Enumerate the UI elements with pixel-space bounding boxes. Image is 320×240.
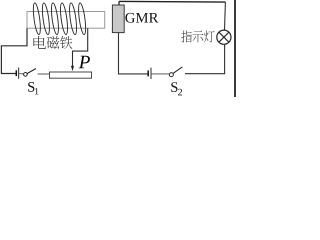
label P (slider) — [79, 56, 90, 68]
battery cell B2 positive long plate — [150, 68, 152, 79]
battery cell B1 negative short plate — [15, 70, 17, 76]
label "指示灯" (indicator lamp) char 2 — [193, 31, 204, 43]
electromagnet coil winding (6 turns) — [32, 3, 87, 35]
electromagnet core (iron core rectangle) — [27, 12, 105, 29]
wire: switch S2 to battery B2 — [152, 73, 169, 75]
battery cell B2 negative short plate — [147, 70, 149, 76]
label "电磁铁" (electromagnet) char 3 — [60, 36, 72, 49]
switch S1 pivot circle — [24, 73, 28, 77]
wire: right side down to lamp — [224, 2, 227, 30]
switch S2 pivot circle — [169, 73, 173, 77]
label "指示灯" (indicator lamp) char 3 — [204, 31, 215, 43]
label "指示灯" (indicator lamp) char 1 — [181, 31, 192, 43]
wire: battery B1 to switch S1 — [19, 73, 23, 75]
battery cell B1 positive long plate — [18, 68, 20, 79]
label GMR — [125, 13, 134, 23]
label S1 — [28, 82, 34, 92]
slider arrow pointing down at bar — [71, 66, 74, 71]
page column rule at right edge — [234, 0, 236, 97]
GMR element box — [112, 5, 124, 33]
wire: stub from GMR box top up to top wire — [118, 1, 120, 5]
wire: battery B2 to bottom-left corner, up to GMR box — [119, 33, 148, 74]
switch S2 lever (open) — [173, 67, 183, 74]
label "电磁铁" (electromagnet) char 2 — [47, 36, 59, 49]
rheostat resistance bar under slider — [50, 72, 92, 78]
label S2 — [171, 82, 177, 92]
wire: left lead from core down-left to battery B1 — [1, 28, 27, 73]
indicator lamp (circle with X) — [217, 30, 231, 44]
wire: top run of indicator circuit — [119, 0, 226, 3]
wire: below lamp to bottom-right corner and along bottom to switch S2 — [185, 44, 225, 73]
label "电磁铁" (electromagnet) char 1 — [33, 36, 45, 49]
switch S1 lever (open) — [27, 69, 36, 74]
wire: switch S1 to rheostat bar — [38, 73, 50, 75]
wire: coil right lead with jog down to slider — [73, 28, 88, 67]
